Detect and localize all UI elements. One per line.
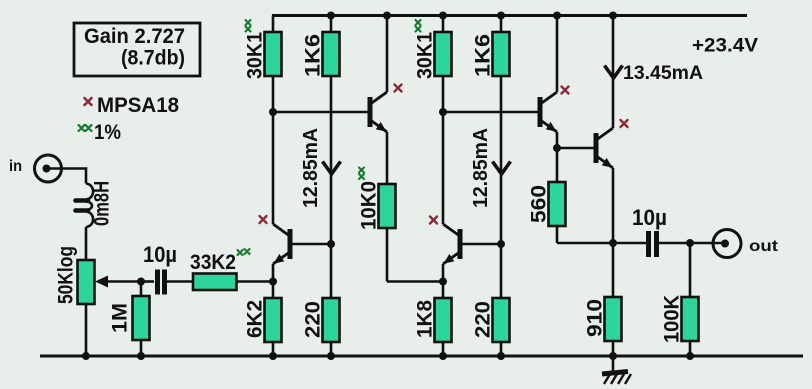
- svg-text:12.85mA: 12.85mA: [300, 128, 322, 208]
- wire inductor to pot: [85, 227, 88, 260]
- input terminal: [35, 155, 62, 182]
- output terminal: [713, 230, 741, 258]
- node rail 1K6 stage1: [327, 12, 335, 20]
- red asterisk Q3: [430, 217, 437, 224]
- wire rail to 1K6 stage2: [500, 16, 503, 33]
- 33K2 green double asterisk: [238, 249, 250, 255]
- capacitor C2 10u: [649, 231, 657, 257]
- node 1M bottom: [137, 352, 145, 360]
- svg-text:30K1: 30K1: [244, 32, 267, 79]
- wire wiper node to C1: [141, 280, 154, 283]
- wire out node to C2: [613, 242, 646, 245]
- wire pot bottom to ground rail: [85, 304, 88, 356]
- resistor 1K8: [435, 298, 452, 356]
- capacitor C1 10u: [158, 270, 165, 295]
- wire Q2 collector to rail: [386, 16, 389, 93]
- resistor 220 stage2: [493, 298, 510, 356]
- svg-text:1%: 1%: [94, 121, 121, 144]
- svg-text:1K6: 1K6: [302, 34, 325, 77]
- svg-text:Gain 2.727: Gain 2.727: [84, 25, 185, 48]
- svg-text:910: 910: [584, 299, 607, 337]
- resistor 30K1 stage1: [265, 32, 282, 76]
- svg-text:33K2: 33K2: [190, 251, 236, 274]
- resistor 10K0: [379, 184, 444, 282]
- resistor 6K2: [265, 298, 282, 356]
- ground: [602, 356, 631, 384]
- wire 33K2 to emitter node: [237, 280, 274, 283]
- red asterisk Q5: [621, 120, 628, 127]
- node rail Q4 collector: [553, 12, 561, 20]
- wire Q5 collector to rail: [612, 16, 615, 129]
- node 1K8 bottom: [439, 352, 447, 360]
- 30K1 stage2 green double asterisk: [416, 20, 421, 32]
- wire Q3 emitter to node: [442, 264, 445, 298]
- wire 1K6 down to 220 stage1: [330, 76, 333, 298]
- inductor L1: [76, 184, 94, 228]
- svg-text:220: 220: [302, 301, 325, 338]
- svg-text:12.85mA: 12.85mA: [470, 128, 492, 208]
- resistor 100K: [682, 243, 699, 356]
- gain box: [74, 23, 200, 76]
- legend green double asterisk: [79, 125, 92, 131]
- wire input to inductor: [47, 169, 87, 184]
- wire Q4 collector to rail: [556, 16, 559, 93]
- node 100K top: [686, 239, 694, 247]
- node Q3 emitter junction: [439, 278, 447, 286]
- svg-text:10µ: 10µ: [143, 242, 177, 267]
- wire C1 to R 33K2: [167, 280, 193, 283]
- node Q5 emitter junction: [609, 239, 617, 247]
- node Q1 emitter junction: [269, 278, 277, 286]
- node Q3 base tap: [497, 240, 505, 248]
- transistor Q5: [596, 128, 613, 168]
- red asterisk Q1: [260, 216, 267, 223]
- wire Q3 base: [462, 243, 501, 246]
- svg-text:13.45mA: 13.45mA: [623, 62, 703, 84]
- svg-text:50Klog: 50Klog: [55, 246, 78, 304]
- svg-text:1M: 1M: [109, 303, 132, 333]
- svg-text:10µ: 10µ: [632, 205, 667, 230]
- svg-text:out: out: [749, 238, 779, 255]
- transistor Q1: [273, 224, 290, 264]
- wire Q1 base: [292, 243, 331, 246]
- node 220 stage1 bottom: [327, 352, 335, 360]
- transistor Q2: [370, 92, 387, 132]
- transistor Q4: [540, 92, 557, 132]
- svg-text:1K8: 1K8: [414, 300, 437, 338]
- wire Q4 emitter to node: [556, 132, 559, 148]
- svg-text:10K0: 10K0: [358, 181, 381, 230]
- wire ground bottom rail: [40, 355, 803, 358]
- wire Q5 base: [557, 147, 594, 150]
- wire 30K1 to Q1 collector: [272, 76, 275, 224]
- svg-text:220: 220: [472, 301, 495, 338]
- resistor 910: [605, 243, 622, 356]
- resistor 1K6 stage2: [493, 32, 510, 76]
- node rail 30K1 stage2: [439, 12, 447, 20]
- node rail Q5 collector: [609, 12, 617, 20]
- legend red asterisk: [85, 98, 92, 105]
- wire rail to 1K6 stage1: [330, 16, 333, 33]
- wire Q1 emitter to node: [272, 264, 275, 298]
- svg-text:in: in: [9, 158, 22, 175]
- svg-text:(8.7db): (8.7db): [121, 47, 185, 70]
- node 6K2 bottom: [269, 352, 277, 360]
- current arrow stage1: [323, 162, 341, 175]
- svg-text:6K2: 6K2: [244, 300, 267, 338]
- 10K0 green double asterisk: [359, 168, 364, 180]
- node Q3 collector / Q4 base tap: [439, 108, 447, 116]
- node Q1 collector / Q2 base tap: [269, 108, 277, 116]
- node Q4 emitter / Q5 base / 560 top: [553, 144, 561, 152]
- wire rail to 30K1 stage2: [442, 16, 445, 33]
- node 220 stage2 bottom: [497, 352, 505, 360]
- resistor 1M: [133, 282, 150, 357]
- wire C2 to output terminal: [659, 242, 725, 245]
- node 910 bottom: [609, 352, 617, 360]
- svg-text:MPSA18: MPSA18: [97, 94, 179, 117]
- wire +V top rail: [272, 14, 747, 17]
- node wiper junction: [137, 278, 145, 286]
- wiper arrow: [95, 276, 141, 288]
- wire Q4 base: [443, 111, 538, 114]
- potentiometer 50Klog: [78, 260, 95, 304]
- node rail Q2 collector: [383, 12, 391, 20]
- svg-text:+23.4V: +23.4V: [692, 35, 758, 57]
- wire rail to 30K1: [272, 16, 275, 33]
- 30K1 stage1 green double asterisk: [246, 20, 251, 32]
- svg-text:30K1: 30K1: [414, 32, 437, 79]
- red asterisk Q4: [562, 87, 569, 94]
- node Q1 base tap: [327, 240, 335, 248]
- node pot bottom: [82, 352, 90, 360]
- resistor 560: [549, 148, 614, 243]
- resistor 1K6 stage1: [323, 32, 340, 76]
- svg-text:100K: 100K: [661, 295, 684, 343]
- resistor 30K1 stage2: [435, 32, 452, 76]
- wire Q5 emitter to out node: [612, 168, 615, 243]
- svg-text:1K6: 1K6: [472, 34, 495, 77]
- resistor 220 stage1: [323, 298, 340, 356]
- node 100K bottom: [686, 352, 694, 360]
- wire Q2 emitter to 10K0: [386, 132, 389, 184]
- red asterisk Q2: [395, 85, 402, 92]
- wire 30K1 stage2 to Q3 collector: [442, 76, 445, 224]
- wire 1K6 down to 220 stage2: [500, 76, 503, 298]
- current arrow output stage: [605, 66, 623, 79]
- transistor Q3: [443, 224, 460, 264]
- node rail 1K6 stage2: [497, 12, 505, 20]
- current arrow stage2: [493, 162, 511, 175]
- svg-text:0m8H: 0m8H: [91, 181, 114, 226]
- wire Q2 base: [273, 111, 368, 114]
- svg-text:560: 560: [528, 185, 551, 223]
- resistor 33K2: [193, 274, 237, 291]
